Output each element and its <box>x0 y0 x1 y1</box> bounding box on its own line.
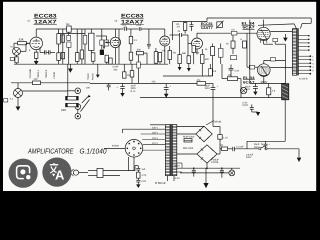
transformer bottom stubs <box>168 176 175 181</box>
pilot jack small <box>240 87 246 93</box>
ground arrow heater <box>203 168 208 188</box>
svg-text:ELTD: ELTD <box>243 104 249 107</box>
wire EL34 no1 plate to OT <box>270 31 292 33</box>
lens icon circle <box>9 159 38 188</box>
wire V1 anode to top bus <box>35 29 37 37</box>
svg-text:0.02: 0.02 <box>142 180 147 183</box>
resistor under V1 <box>35 52 38 58</box>
resistor pair x62 <box>61 35 64 59</box>
ground arrow under J2 <box>16 107 21 111</box>
svg-text:FONO: FONO <box>92 73 95 80</box>
resistor 2.2K <box>226 35 235 54</box>
resistor 8 0.5 <box>241 38 247 48</box>
svg-text:(3): (3) <box>115 20 118 23</box>
fuse 1.1A <box>213 126 228 148</box>
svg-text:A-62: A-62 <box>245 88 251 91</box>
svg-text:R 501-E: R 501-E <box>155 181 166 185</box>
svg-text:1.1A: 1.1A <box>223 137 228 140</box>
svg-text:13K: 13K <box>66 23 71 26</box>
svg-text:160 V: 160 V <box>152 131 158 134</box>
svg-text:33K: 33K <box>19 38 24 42</box>
resistor 1M mid <box>123 64 131 78</box>
svg-text:220 V: 220 V <box>152 126 158 129</box>
resistor 50ohm 2A <box>221 144 228 150</box>
bottom B wire <box>247 140 285 142</box>
output transformer OT primary <box>292 29 296 76</box>
resistor extra a <box>168 46 172 64</box>
svg-text:32uF: 32uF <box>131 84 137 87</box>
tube V3b triode <box>188 33 203 56</box>
translate icon glyph <box>50 163 58 173</box>
capacitor cluster box a <box>100 29 104 49</box>
ground bus lower <box>140 97 285 99</box>
svg-text:A74DB: A74DB <box>211 161 219 164</box>
line cord crossing <box>66 169 88 176</box>
svg-text:12AT7: 12AT7 <box>201 26 213 30</box>
trimmer pot <box>216 21 224 29</box>
resistor cathode V2 <box>129 52 133 64</box>
cap 50uF 500V <box>254 141 271 149</box>
svg-text:68K: 68K <box>182 52 187 55</box>
socket top line <box>123 128 166 130</box>
svg-text:0.05: 0.05 <box>137 24 142 27</box>
OT tap numbers <box>312 55 314 72</box>
svg-text:500V: 500V <box>254 146 260 149</box>
svg-text:22K: 22K <box>86 87 91 90</box>
resistor under J1 <box>10 55 18 64</box>
svg-text:350V: 350V <box>205 87 211 90</box>
capacitor on bus <box>86 83 111 90</box>
resistor x82 <box>80 29 83 64</box>
wire B down <box>246 141 248 149</box>
socket wire up <box>122 129 124 133</box>
tube V2 label ECC83/12AX7 <box>115 13 144 28</box>
bridge rectifier D2 <box>177 145 217 163</box>
resistor R8 <box>154 48 158 64</box>
ground arrow under V1 <box>34 61 39 65</box>
resistor R2 <box>57 29 61 64</box>
tube EL34 no2 <box>258 58 286 84</box>
wire x213 PSU to filter <box>212 98 214 127</box>
svg-text:AMPLIFICATORE: AMPLIFICATORE <box>27 147 73 156</box>
svg-text:6.3V: 6.3V <box>243 101 248 104</box>
svg-text:VOLUME: VOLUME <box>29 68 32 78</box>
socket bottom wire <box>133 157 135 171</box>
pilot lamp <box>229 168 235 176</box>
capacitor C7 <box>147 41 151 49</box>
screen bypass cap <box>245 83 258 95</box>
pin jack C <box>75 109 81 119</box>
svg-text:C.10uF: C.10uF <box>236 145 244 148</box>
wire V1 cathode down <box>35 50 37 61</box>
capacitor tall C10 <box>218 44 223 65</box>
box extra c <box>231 56 237 60</box>
svg-text:47K: 47K <box>197 79 202 82</box>
rotated text tono <box>87 73 95 80</box>
resistor R10 <box>178 37 182 71</box>
svg-text:+100uF: +100uF <box>211 158 219 161</box>
line y83 bus <box>90 82 166 84</box>
upper bus wire mid <box>173 18 208 40</box>
B+ bar stub to OT <box>294 24 302 29</box>
filter choke <box>282 84 289 100</box>
svg-text:G.1/1040: G.1/1040 <box>80 147 107 156</box>
tube V1 triode <box>26 37 43 52</box>
resistor cluster e <box>109 58 112 64</box>
capacitor 0.5uF <box>208 64 217 76</box>
NFB resistor 47K <box>222 64 241 98</box>
B+ drop wire left <box>249 20 251 83</box>
svg-text:16uF: 16uF <box>205 84 211 87</box>
resistor R11 <box>187 56 191 72</box>
svg-text:50uF: 50uF <box>254 143 260 146</box>
bridge rectifier D1 <box>177 126 212 142</box>
ground arrow cathode <box>283 34 288 42</box>
label EL34/6CA7 upper <box>242 21 255 29</box>
text fuses <box>246 153 254 159</box>
potentiometer tall 1M <box>89 29 94 53</box>
resistor mid2 <box>130 64 134 83</box>
power transformer primary <box>165 125 170 176</box>
resistor cluster d <box>105 55 108 64</box>
heater cap 6.3V <box>243 101 261 116</box>
wire x119 <box>118 29 120 64</box>
label EL34/6CA7 lower <box>243 76 255 85</box>
svg-text:A: A <box>55 167 65 182</box>
resistor 120 1% <box>176 22 187 34</box>
svg-text:6CA7: 6CA7 <box>243 26 255 30</box>
svg-text:BF185: BF185 <box>215 121 222 124</box>
selector switch arrow <box>82 95 91 103</box>
text 6.3V <box>175 165 180 180</box>
choke down wire <box>284 100 286 142</box>
capacitor cluster box b <box>96 36 109 46</box>
grid arrow V2 <box>103 46 105 49</box>
resistor 0.6 <box>267 84 276 98</box>
dark box c <box>100 50 104 55</box>
text 0.02F <box>113 66 119 72</box>
capacitor stack C3 <box>67 32 71 64</box>
D2 output wire <box>217 149 233 154</box>
mains plug <box>88 157 135 178</box>
arrow down right <box>297 149 302 162</box>
svg-text:110 V: 110 V <box>152 142 158 145</box>
capacitor small x138 <box>137 55 141 84</box>
heater taps from transformer <box>177 163 182 172</box>
pot wiper arrow <box>61 100 90 113</box>
wire vertical x62 <box>62 29 64 64</box>
resistor R5 <box>91 53 95 64</box>
resistor 4.7K on B+ <box>166 79 213 85</box>
svg-text:47K: 47K <box>162 49 167 52</box>
potentiometer volume <box>75 29 79 64</box>
svg-text:RUR-C200: RUR-C200 <box>183 136 195 139</box>
svg-text:50uF: 50uF <box>245 85 251 88</box>
B+ top bus bar <box>207 18 311 25</box>
coupling capacitor C6 0.05 <box>137 24 165 31</box>
capacitor C9 <box>190 22 194 32</box>
svg-text:TONO: TONO <box>87 73 90 80</box>
pin jack A <box>68 88 81 94</box>
svg-text:(1): (1) <box>28 20 31 23</box>
filter cap 32uF <box>131 80 172 97</box>
svg-text:M: M <box>11 46 13 49</box>
svg-text:125 V: 125 V <box>152 137 158 140</box>
OT core <box>297 28 300 75</box>
wire phase splitter to EL34 grid <box>197 32 257 34</box>
white schematic sheet <box>3 2 316 191</box>
rectifier socket <box>104 140 143 158</box>
ground arrow mid <box>68 64 73 73</box>
tube EL34 no1 <box>257 20 273 45</box>
filter cap 16uF <box>205 83 219 97</box>
wire y33.6 <box>59 33 86 35</box>
svg-text:350V: 350V <box>131 87 137 90</box>
rotated control labels <box>29 68 56 78</box>
wire EL34 no2 plate to OT <box>270 67 293 69</box>
voltage labels <box>152 126 158 145</box>
coupling capacitor C5 0.1 <box>123 24 139 31</box>
svg-text:1%: 1% <box>177 26 180 29</box>
capacitor C 10uF <box>233 145 258 151</box>
wire selector column <box>67 64 69 98</box>
svg-text:R.14: R.14 <box>131 90 137 93</box>
svg-text:6.3V: 6.3V <box>175 177 180 180</box>
wire x148.9 <box>148 29 150 41</box>
resistor R3 <box>57 53 61 61</box>
fuse box <box>183 136 195 142</box>
heater bus <box>177 167 240 169</box>
filter cap 31uF left <box>117 83 125 96</box>
pin jack B <box>75 104 81 110</box>
bottom bus wire <box>14 63 168 65</box>
lens icon glyph <box>17 166 30 179</box>
svg-text:0.04uF: 0.04uF <box>246 153 254 156</box>
svg-text:47K: 47K <box>152 80 157 83</box>
svg-text:EL 34: EL 34 <box>243 76 255 80</box>
input bus 2 wire <box>11 82 90 84</box>
heater bus lower <box>180 172 229 174</box>
OT secondary taps upper <box>298 35 309 51</box>
diode label leader <box>206 121 222 125</box>
tube V2 triode <box>105 29 121 64</box>
ground arrow small <box>96 64 100 78</box>
svg-text:4.7K: 4.7K <box>142 174 147 177</box>
resistor extra b <box>192 46 195 65</box>
svg-text:RIR-C200: RIR-C200 <box>183 147 194 150</box>
capacitor 0.5 on grid wire <box>231 29 237 35</box>
resistor 220 <box>33 78 41 84</box>
mains selector lines <box>141 134 166 150</box>
svg-text:1M: 1M <box>196 51 199 54</box>
D2 bottom to heater bus <box>206 163 208 168</box>
tube V3a label <box>201 22 214 30</box>
input jack J2 <box>10 83 23 107</box>
svg-text:6AX00: 6AX00 <box>112 145 120 148</box>
svg-text:0.02F: 0.02F <box>113 66 119 69</box>
junction dots <box>193 167 195 169</box>
power transformer core <box>170 124 173 176</box>
svg-text:TONO B: TONO B <box>45 69 48 78</box>
svg-text:FONO: FONO <box>53 72 56 79</box>
svg-text:6CA7: 6CA7 <box>243 81 255 85</box>
translate icon circle <box>42 158 71 187</box>
terminal box left edge <box>4 99 8 102</box>
line 250V node <box>250 82 286 84</box>
resistor 500 <box>136 49 147 65</box>
resistor 1M <box>66 96 79 100</box>
ground bus v3 <box>163 75 213 77</box>
svg-text:6.3V: 6.3V <box>175 165 180 168</box>
input jack J1 <box>11 46 27 56</box>
svg-text:0.25: 0.25 <box>235 69 240 72</box>
svg-text:N 342-B: N 342-B <box>299 78 308 81</box>
svg-text:TONO A: TONO A <box>37 69 40 78</box>
RC stack on mains <box>135 166 147 188</box>
OT secondary taps lower <box>298 55 311 74</box>
svg-text:1uF: 1uF <box>142 168 147 171</box>
cap at 222 <box>211 158 224 177</box>
resistor plate V2 <box>129 29 137 52</box>
wire to EL34 no2 grid <box>247 33 258 69</box>
capacitor C4 <box>83 29 87 64</box>
tube V1 label ECC83/12AX7 <box>28 13 57 25</box>
cap at 194 <box>192 168 196 176</box>
tube V3a triode <box>160 29 170 64</box>
power transformer secondary <box>172 125 176 176</box>
coupling capacitor C8 25 <box>170 30 188 44</box>
svg-text:47K: 47K <box>228 74 233 77</box>
svg-text:22K: 22K <box>61 108 66 112</box>
resistor R12 <box>201 49 204 76</box>
svg-text:1M: 1M <box>127 74 130 77</box>
wire cathode no2 <box>284 44 286 83</box>
top bus wire <box>36 28 123 30</box>
resistor on bus 13K <box>66 23 72 32</box>
resistor box <box>66 103 79 106</box>
svg-text:2K: 2K <box>226 43 229 46</box>
cathode resistor V3a <box>158 52 161 64</box>
coupling caps C1 C2 <box>40 47 55 55</box>
NFB capacitor 0.25 <box>229 65 240 77</box>
resistor 46 1W <box>205 44 215 77</box>
micro labels <box>162 49 210 61</box>
cathode capacitor box <box>273 38 286 44</box>
mains switch G <box>259 142 299 150</box>
svg-text:400V: 400V <box>246 156 252 159</box>
wire jack2 to selector <box>23 90 68 92</box>
resistor R1 33K <box>14 38 30 49</box>
